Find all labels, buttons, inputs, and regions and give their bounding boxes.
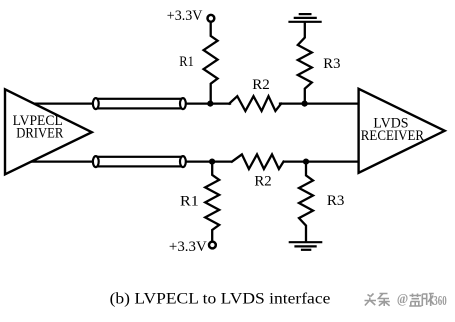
resistor R2 (bottom, horizontal zigzag) <box>232 154 284 169</box>
svg-text:360: 360 <box>433 294 447 308</box>
svg-text:R1: R1 <box>180 193 199 209</box>
svg-text:R2: R2 <box>252 77 270 93</box>
glyph 头 <box>365 294 377 306</box>
wire top line left segment <box>32 102 95 104</box>
svg-text:R3: R3 <box>323 56 340 72</box>
node junction dots <box>207 101 309 165</box>
node top-right junction <box>302 101 308 107</box>
svg-text:DRIVER: DRIVER <box>16 126 64 142</box>
transmission line TL1 (top coax) <box>93 98 186 109</box>
terminal +3.3V (top) <box>208 15 215 22</box>
wire bottom line mid segment <box>184 160 231 162</box>
resistor R1 (bottom, vertical zigzag) <box>205 162 219 241</box>
wire top line right segment <box>280 102 359 104</box>
svg-text:@: @ <box>397 291 408 306</box>
transmission line TL2 (bottom coax) <box>93 156 186 167</box>
glyph 条 <box>379 294 390 307</box>
svg-text:(b) LVPECL to LVDS interface: (b) LVPECL to LVDS interface <box>110 289 331 307</box>
svg-text:R2: R2 <box>254 174 271 190</box>
op-amp U2 LVDS receiver triangle <box>359 89 445 173</box>
svg-text:+3.3V: +3.3V <box>167 8 203 24</box>
resistor R1 (top, vertical zigzag) <box>204 23 218 104</box>
node top-left junction <box>207 101 213 107</box>
node bottom-right junction <box>303 159 309 165</box>
svg-text:RECEIVER: RECEIVER <box>361 128 425 144</box>
ground (top, inverted) <box>290 14 321 22</box>
svg-text:R3: R3 <box>327 193 345 209</box>
svg-text:R1: R1 <box>179 53 194 69</box>
resistor R3 (top, vertical zigzag) <box>298 23 312 104</box>
ground (bottom) <box>290 242 321 250</box>
node bottom-left junction <box>209 159 215 165</box>
resistor R2 (top, horizontal zigzag) <box>229 96 281 111</box>
op-amp U1 LVPECL driver triangle <box>5 89 92 174</box>
svg-text:+3.3V: +3.3V <box>169 239 207 255</box>
wire bottom line right segment <box>284 160 359 162</box>
wire top line mid segment <box>184 102 230 104</box>
glyph 蓝 <box>409 294 421 307</box>
resistor R3 (bottom, vertical zigzag) <box>299 162 313 242</box>
watermark 头条 @蓝豚360 <box>365 294 390 307</box>
terminal +3.3V (bottom) <box>209 242 216 249</box>
glyph 豚 <box>422 294 434 307</box>
wire bottom line left segment <box>28 160 95 162</box>
